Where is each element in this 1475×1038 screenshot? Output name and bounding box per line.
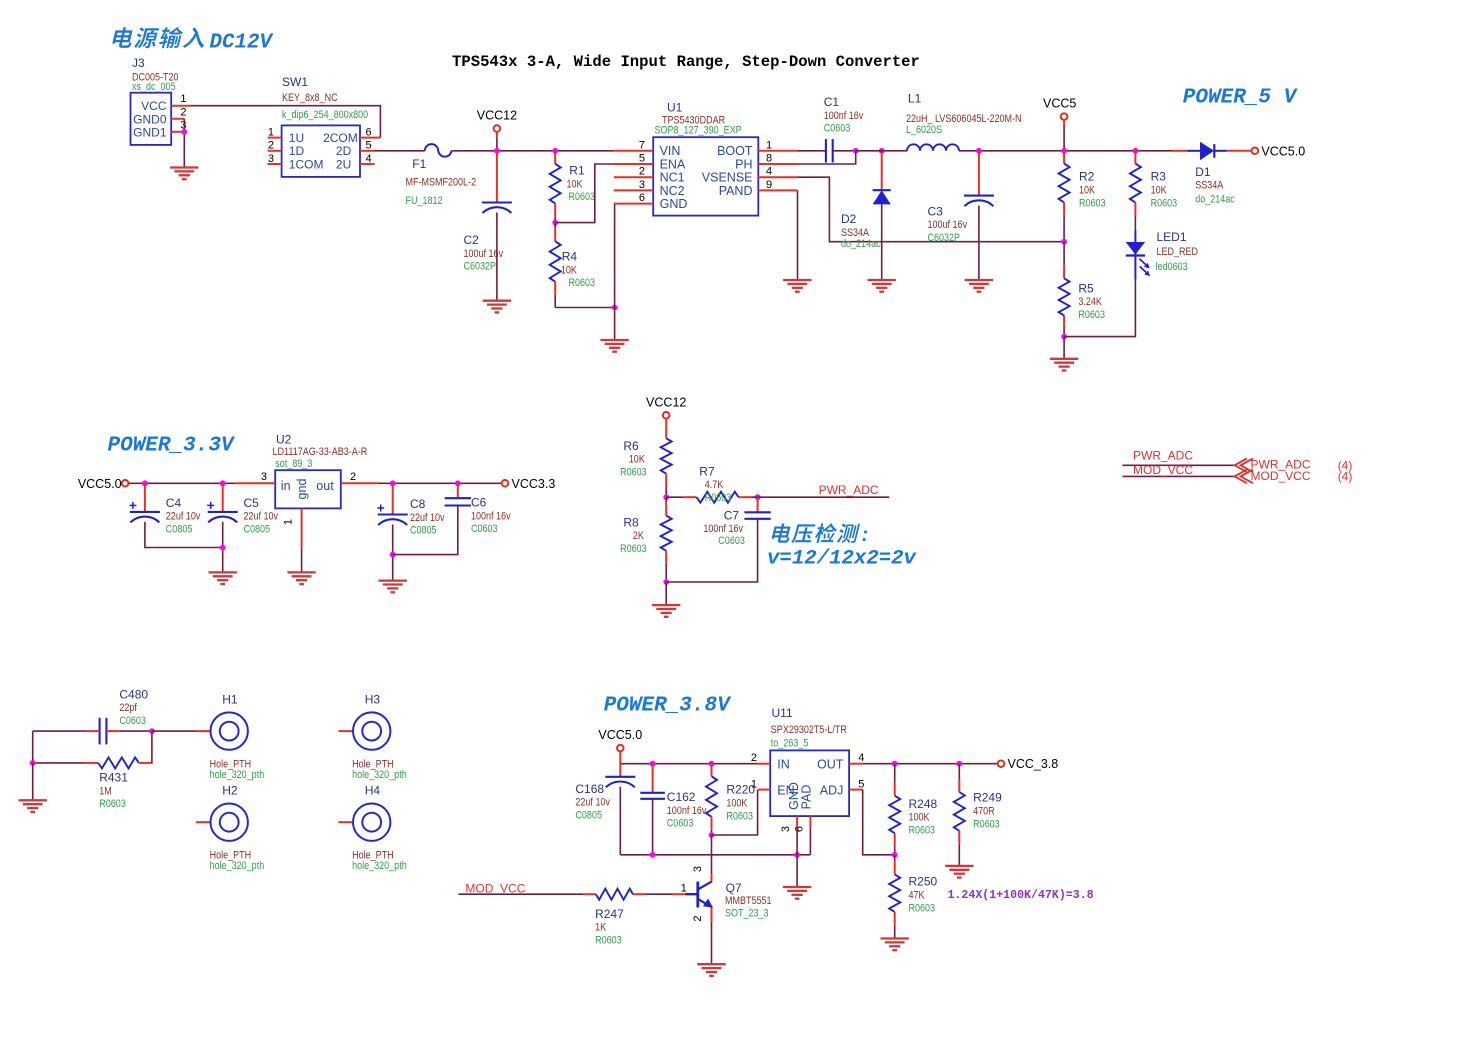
svg-text:R248: R248 (909, 797, 938, 811)
svg-text:do_214ac: do_214ac (1195, 194, 1235, 206)
wire to ground (32, 763, 34, 800)
svg-text:VSENSE: VSENSE (702, 171, 753, 185)
wire PH node to L1 (856, 150, 907, 152)
wire C5 to ground (222, 522, 224, 573)
svg-text:10K: 10K (561, 265, 577, 277)
svg-text:(4): (4) (1338, 470, 1353, 484)
capacitor C3 (928, 196, 994, 245)
ground (483, 301, 511, 313)
svg-text:10K: 10K (1151, 185, 1167, 197)
junction (220, 480, 226, 486)
wire left down (32, 731, 34, 763)
junction (709, 832, 715, 838)
wire D2 anode to ground (881, 204, 883, 280)
junction (552, 220, 558, 226)
svg-text:VCC5.0: VCC5.0 (598, 728, 642, 742)
svg-text:10K: 10K (1079, 185, 1095, 197)
svg-text:C0805: C0805 (166, 524, 193, 536)
resistor R250 (889, 855, 937, 939)
junction (390, 480, 396, 486)
capacitor C1 (824, 95, 864, 162)
wire C1 to PH node (833, 150, 856, 152)
wire J3 pin1 to SW1 pin6 (190, 106, 380, 138)
svg-text:H2: H2 (222, 784, 238, 798)
svg-text:R0603: R0603 (1151, 198, 1178, 210)
ground (945, 866, 973, 878)
svg-text:2: 2 (350, 471, 356, 483)
wire VSENSE feedback (798, 177, 1064, 242)
wire LED to gnd net (1064, 279, 1135, 336)
svg-text:3: 3 (261, 471, 267, 483)
svg-text:3: 3 (268, 153, 274, 165)
wire R4 to gnd net (555, 307, 614, 309)
resistor R4 (550, 223, 596, 308)
svg-text:9: 9 (766, 179, 772, 191)
svg-text:R0603: R0603 (1079, 198, 1106, 210)
svg-text:R6: R6 (623, 439, 639, 453)
wire L1 to VCC5 rail (959, 150, 1172, 152)
svg-text:1M: 1M (99, 786, 112, 798)
svg-text::: : (859, 525, 871, 547)
svg-text:22uf 10v: 22uf 10v (244, 511, 279, 523)
wire C480 right (120, 730, 152, 732)
svg-text:3: 3 (692, 866, 704, 872)
wire stem (619, 752, 621, 764)
svg-text:1K: 1K (595, 922, 606, 934)
wire 3.8 rail (620, 763, 757, 765)
svg-text:C6032P: C6032P (928, 232, 961, 244)
svg-text:C162: C162 (667, 790, 696, 804)
svg-text:R2: R2 (1079, 170, 1095, 184)
ground (697, 964, 725, 976)
svg-text:R0603: R0603 (726, 811, 753, 823)
svg-text:DC12V: DC12V (210, 31, 275, 54)
junction (181, 129, 187, 135)
svg-text:100nf 16v: 100nf 16v (471, 511, 511, 523)
capacitor C5 (207, 496, 278, 536)
svg-text:MMBT5551: MMBT5551 (725, 895, 772, 907)
svg-text:4: 4 (366, 153, 372, 165)
svg-text:k_dip6_254_800x800: k_dip6_254_800x800 (282, 109, 369, 121)
wire C2 to ground (496, 213, 498, 301)
svg-text:2COM: 2COM (323, 131, 358, 145)
svg-text:1D: 1D (289, 144, 305, 158)
IC U2 LD1117AG (236, 433, 378, 549)
svg-text:out: out (316, 479, 334, 493)
resistor R6 (620, 425, 672, 497)
svg-text:KEY_8x8_NC: KEY_8x8_NC (282, 92, 338, 104)
junction (794, 852, 800, 858)
svg-text:do_214ac: do_214ac (841, 238, 881, 250)
wire PWR_ADC (752, 496, 890, 498)
ground (209, 572, 237, 584)
junction (709, 761, 715, 767)
svg-text:hole_320_pth: hole_320_pth (352, 769, 407, 781)
wire C6 bottom (393, 506, 458, 555)
svg-text:2K: 2K (633, 530, 644, 542)
junction (142, 480, 148, 486)
wire R6 to R7 (666, 496, 683, 498)
svg-text:1: 1 (681, 883, 687, 895)
junction (892, 761, 898, 767)
svg-text:C480: C480 (119, 687, 148, 701)
svg-text:PWR_ADC: PWR_ADC (819, 483, 879, 497)
svg-text:R431: R431 (99, 771, 128, 785)
svg-text:F1: F1 (412, 157, 426, 171)
svg-text:R0603: R0603 (620, 467, 647, 479)
svg-text:PH: PH (735, 157, 752, 171)
svg-text:1COM: 1COM (289, 157, 324, 171)
power VCC5.0 38 (598, 728, 642, 751)
svg-text:R0603: R0603 (1078, 309, 1105, 321)
mounting hole H4 (338, 784, 406, 873)
resistor R220 (706, 763, 755, 835)
IC U11 SPX29302 (751, 706, 864, 832)
svg-text:C8: C8 (410, 497, 426, 511)
svg-text:R0603: R0603 (973, 819, 1000, 831)
power VCC5.0 input (78, 477, 129, 491)
wire to H1 (152, 730, 197, 732)
svg-text:R1: R1 (569, 164, 585, 178)
wire to ground (796, 855, 798, 887)
svg-text:IN: IN (777, 758, 790, 772)
svg-text:2D: 2D (336, 144, 352, 158)
svg-text:NC2: NC2 (660, 184, 685, 198)
svg-text:C0805: C0805 (410, 525, 437, 537)
svg-text:4.7K: 4.7K (705, 479, 724, 491)
svg-text:PWR_ADC: PWR_ADC (1133, 449, 1193, 463)
svg-text:5: 5 (639, 153, 645, 165)
junction (552, 148, 558, 154)
title 电压检测 (771, 523, 871, 547)
svg-text:C7: C7 (724, 509, 740, 523)
svg-text:U11: U11 (772, 706, 793, 720)
wire ADJ net (863, 790, 895, 855)
svg-text:22uf 10v: 22uf 10v (166, 511, 201, 523)
svg-text:470R: 470R (973, 806, 995, 818)
capacitor C162 (640, 790, 706, 830)
svg-text:C4: C4 (166, 496, 182, 510)
svg-text:VCC5.0: VCC5.0 (1261, 144, 1305, 158)
power VCC3.3 (502, 477, 556, 491)
resistor R8 (620, 497, 672, 582)
wire C480 left (33, 730, 86, 732)
svg-text:R7: R7 (699, 464, 715, 478)
svg-text:C0805: C0805 (244, 524, 271, 536)
svg-text:2: 2 (639, 166, 645, 178)
wire Q7 emitter to ground (711, 922, 713, 964)
svg-text:GND: GND (660, 197, 688, 211)
mounting hole H1 (210, 693, 265, 782)
power VCC5 (1043, 97, 1076, 120)
wire BOOT to C1 (798, 150, 826, 152)
svg-text:R3: R3 (1151, 170, 1167, 184)
wire SW1 to F1 (375, 150, 425, 152)
svg-text:GND0: GND0 (133, 112, 167, 126)
resistor R2 (1059, 151, 1106, 242)
capacitor C168 (575, 777, 635, 822)
svg-text:VCC12: VCC12 (646, 395, 686, 409)
svg-text:MOD_VCC: MOD_VCC (1251, 469, 1311, 483)
svg-text:sot_89_3: sot_89_3 (275, 458, 312, 470)
junction (892, 852, 898, 858)
ground (287, 572, 315, 584)
junction (853, 148, 859, 154)
svg-text:22pf: 22pf (119, 702, 137, 714)
svg-text:LED1: LED1 (1157, 230, 1187, 244)
svg-text:C6032P: C6032P (464, 261, 497, 273)
junction (220, 545, 226, 551)
svg-text:3: 3 (639, 179, 645, 191)
wire U2 out rail (379, 482, 502, 484)
svg-text:J3: J3 (132, 56, 145, 70)
svg-text:MOD_VCC: MOD_VCC (1133, 463, 1193, 477)
wire U1 GND down (614, 204, 616, 308)
svg-text:ADJ: ADJ (820, 783, 844, 797)
wire to C5 (222, 483, 224, 512)
svg-text:VCC: VCC (141, 99, 167, 113)
svg-text:R0603: R0603 (569, 277, 596, 289)
svg-text:to_263_5: to_263_5 (771, 738, 809, 750)
svg-text:in: in (281, 479, 291, 493)
svg-text:POWER_3.3V: POWER_3.3V (108, 434, 236, 457)
wire C162 bottom (652, 799, 654, 855)
svg-text:6: 6 (366, 126, 372, 138)
resistor R248 (889, 764, 937, 855)
wire to C3 (978, 151, 980, 196)
ground (379, 581, 407, 593)
svg-text:Q7: Q7 (726, 881, 742, 895)
capacitor C480 (100, 687, 149, 744)
svg-text:POWER_3.8V: POWER_3.8V (604, 695, 732, 718)
wire to Q7 collector (711, 835, 713, 874)
svg-text:hole_320_pth: hole_320_pth (210, 860, 265, 872)
svg-text:POWER_5 V: POWER_5 V (1183, 87, 1299, 110)
svg-text:MF-MSMF200L-2: MF-MSMF200L-2 (406, 177, 477, 189)
wire OUT rail (863, 763, 998, 765)
wire U2 gnd pin (301, 549, 303, 573)
wire to ground (1063, 337, 1065, 359)
svg-text:TPS543x 3-A, Wide Input Range,: TPS543x 3-A, Wide Input Range, Step-Down… (452, 53, 920, 71)
resistor R247 (583, 889, 672, 947)
svg-text:hole_320_pth: hole_320_pth (352, 860, 407, 872)
wire PH up (798, 151, 856, 164)
svg-text:100K: 100K (726, 798, 747, 810)
junction (879, 148, 885, 154)
svg-text:2: 2 (692, 915, 704, 921)
wire VCC5.0 rail (129, 482, 237, 484)
svg-text:C0805: C0805 (575, 810, 602, 822)
svg-text:22uf 10v: 22uf 10v (575, 797, 610, 809)
wire C4 bottom (145, 522, 223, 548)
svg-text:C6: C6 (471, 496, 487, 510)
svg-text:LD1117AG-33-AB3-A-R: LD1117AG-33-AB3-A-R (273, 446, 368, 458)
junction (650, 761, 656, 767)
power VCC12 divider (646, 395, 686, 418)
svg-text:R5: R5 (1078, 281, 1094, 295)
resistor R249 (954, 764, 1002, 866)
mounting hole H3 (338, 693, 406, 782)
ground (600, 340, 628, 352)
svg-text:2U: 2U (336, 157, 351, 171)
svg-text:22uf 10v: 22uf 10v (410, 512, 445, 524)
svg-text:C0603: C0603 (119, 715, 146, 727)
wire to ground (665, 582, 667, 605)
svg-text:L_6020S: L_6020S (906, 124, 942, 136)
wire ENA feedback (555, 164, 614, 223)
wire VCC12 stem2 (496, 138, 498, 151)
svg-text:R0603: R0603 (909, 825, 936, 837)
svg-text:6: 6 (793, 826, 805, 832)
svg-text:4: 4 (766, 166, 772, 178)
ground (881, 939, 909, 951)
wire VCC12 stem3 (665, 419, 667, 426)
svg-text:D2: D2 (841, 212, 857, 226)
wire GND pin (796, 828, 798, 855)
port MOD_VCC (1122, 463, 1352, 484)
junction (149, 728, 155, 734)
resistor R5 (1059, 242, 1106, 337)
svg-text:VCC5.0: VCC5.0 (78, 477, 122, 491)
LED LED1 (1126, 230, 1198, 279)
svg-text:H4: H4 (365, 784, 381, 798)
ground (19, 800, 47, 812)
title 电源输入DC12V (111, 27, 274, 54)
svg-text:1: 1 (751, 779, 757, 791)
svg-text:100nf 16v: 100nf 16v (824, 110, 864, 122)
diode D2 (841, 151, 891, 250)
wire to C162 (652, 764, 654, 793)
svg-text:L1: L1 (908, 92, 922, 106)
wire to C7 (757, 497, 759, 512)
capacitor C6 (445, 496, 511, 536)
svg-text:PAD: PAD (800, 785, 814, 810)
svg-text:1: 1 (180, 93, 186, 105)
svg-text:R0603: R0603 (705, 492, 732, 504)
junction (30, 760, 36, 766)
wire gnd rail 3.8 (620, 854, 810, 856)
transistor Q7 (672, 866, 772, 922)
svg-text:MOD_VCC: MOD_VCC (465, 881, 525, 895)
ground (783, 887, 811, 899)
svg-text:LED_RED: LED_RED (1157, 246, 1199, 258)
ground (783, 280, 811, 292)
svg-text:R247: R247 (595, 907, 624, 921)
wire PAND to ground (797, 190, 799, 280)
wire F1 to U1 VIN (452, 150, 614, 152)
resistor R3 (1130, 151, 1178, 231)
wire to C168 (619, 764, 621, 777)
svg-text:GND1: GND1 (133, 125, 167, 139)
svg-text:1: 1 (766, 139, 772, 151)
wire VCC5 stem2 (1063, 127, 1065, 151)
wire C3 to ground (978, 206, 980, 280)
svg-text:H1: H1 (222, 693, 238, 707)
junction (663, 494, 669, 500)
svg-text:C168: C168 (575, 782, 604, 796)
svg-text:10K: 10K (629, 454, 645, 466)
svg-text:C0603: C0603 (824, 123, 851, 135)
junction (650, 852, 656, 858)
svg-text:SPX29302T5-L/TR: SPX29302T5-L/TR (771, 724, 847, 736)
junction (390, 552, 396, 558)
svg-text:PAND: PAND (719, 184, 753, 198)
wire EN net (712, 790, 758, 835)
svg-text:2: 2 (751, 752, 757, 764)
wire to ground (614, 308, 616, 341)
svg-text:100K: 100K (909, 812, 930, 824)
wire C7 bottom (666, 519, 757, 582)
svg-text:4: 4 (858, 752, 864, 764)
svg-text:47K: 47K (909, 890, 925, 902)
junction (455, 480, 461, 486)
svg-text:VCC_3.8: VCC_3.8 (1008, 757, 1059, 771)
ground (868, 280, 896, 292)
svg-text:R0603: R0603 (569, 191, 596, 203)
svg-text:H3: H3 (365, 693, 381, 707)
power VCC_3.8 (998, 757, 1059, 771)
svg-text:SOT_23_3: SOT_23_3 (725, 908, 769, 920)
svg-text:NC1: NC1 (660, 171, 685, 185)
svg-text:D1: D1 (1195, 165, 1211, 179)
power VCC5.0 output (1252, 144, 1306, 158)
svg-text:VIN: VIN (660, 144, 681, 158)
svg-text:SW1: SW1 (282, 75, 308, 89)
svg-text:6: 6 (639, 192, 645, 204)
junction (976, 148, 982, 154)
svg-text:R0603: R0603 (620, 543, 647, 555)
svg-text:C1: C1 (824, 95, 840, 109)
svg-text:100uf 16v: 100uf 16v (928, 219, 968, 231)
svg-text:5: 5 (366, 140, 372, 152)
svg-text:100nf 16v: 100nf 16v (667, 805, 707, 817)
svg-text:C3: C3 (928, 204, 944, 218)
svg-text:ENA: ENA (660, 157, 686, 171)
svg-text:C5: C5 (244, 496, 260, 510)
connector J3 (131, 56, 191, 145)
svg-text:C0603: C0603 (718, 535, 745, 547)
wire to C8 (392, 483, 394, 514)
svg-text:10K: 10K (567, 179, 583, 191)
svg-text:xs_dc_005: xs_dc_005 (132, 81, 176, 93)
svg-text:1: 1 (268, 126, 274, 138)
junction (612, 305, 618, 311)
ground (170, 168, 198, 180)
labels C7 (703, 509, 745, 548)
wire MOD_VCC (458, 893, 583, 895)
IC U1 TPS5430DDAR (614, 101, 798, 216)
svg-text:U2: U2 (276, 433, 292, 447)
inductor L1 (906, 92, 1022, 151)
svg-text:SOP8_127_390_EXP: SOP8_127_390_EXP (655, 125, 742, 137)
svg-text:R250: R250 (909, 875, 938, 889)
wire to C6 (457, 483, 459, 498)
resistor R7 (684, 464, 758, 504)
diode D1 (1172, 142, 1252, 206)
svg-text:U1: U1 (667, 101, 683, 115)
junction (956, 761, 962, 767)
svg-text:5: 5 (858, 779, 864, 791)
svg-text:OUT: OUT (817, 758, 844, 772)
mounting hole H2 (196, 784, 264, 873)
svg-text:R4: R4 (562, 250, 578, 264)
svg-text:2: 2 (180, 106, 186, 118)
svg-text:v=12/12x2=2v: v=12/12x2=2v (767, 547, 918, 570)
junction (1133, 148, 1139, 154)
switch SW1 (268, 75, 381, 177)
svg-text:100nf 16v: 100nf 16v (703, 523, 743, 535)
resistor R1 (550, 151, 596, 223)
